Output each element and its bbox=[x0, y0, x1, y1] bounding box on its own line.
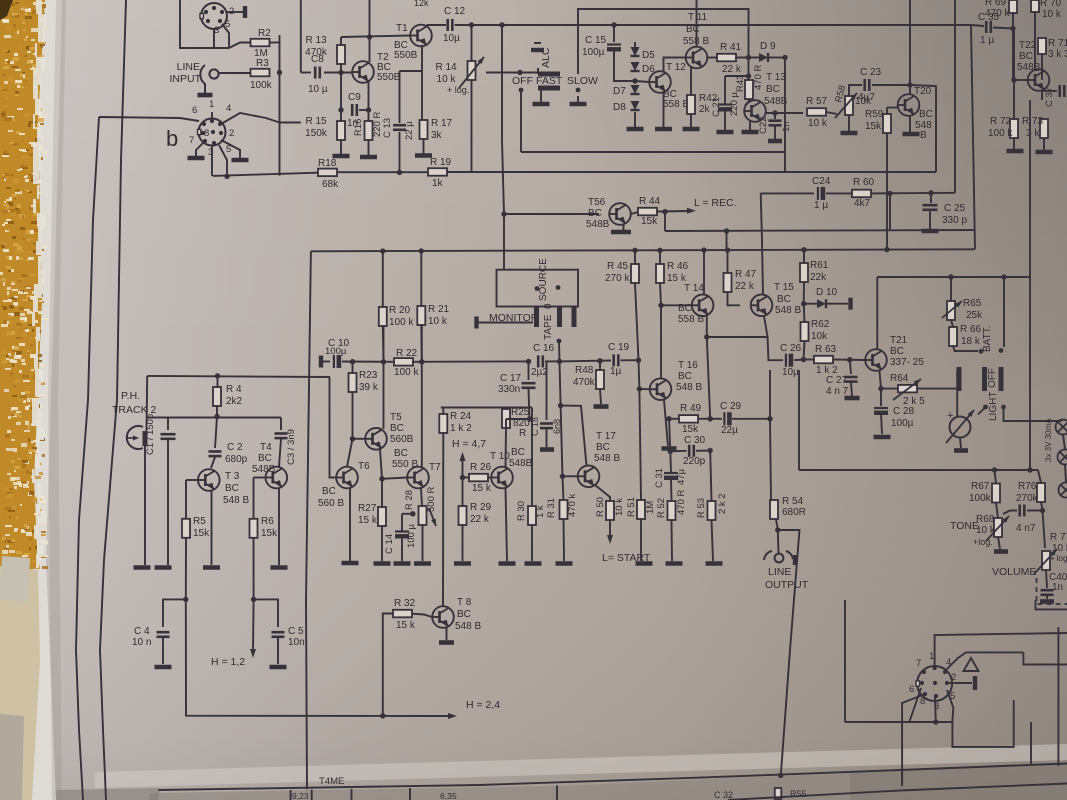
transistor T56 BC548B bbox=[609, 203, 631, 225]
wire T56 base line bbox=[504, 213, 599, 215]
capacitor C29 bbox=[724, 412, 729, 425]
svg-text:25k: 25k bbox=[966, 310, 983, 321]
wire T56 coll bbox=[631, 212, 638, 214]
wire R5 down bbox=[185, 538, 187, 599]
svg-text:R 66: R 66 bbox=[960, 324, 982, 335]
wire rail riser bbox=[971, 25, 975, 249]
wire R24 R25 line bbox=[441, 407, 506, 409]
potentiometer R68 bbox=[994, 518, 1002, 537]
wire C29 out bbox=[732, 418, 770, 420]
transistor T7 BC550B bbox=[407, 467, 429, 489]
wire T14 emitter up bbox=[703, 250, 705, 295]
svg-text:C 2: C 2 bbox=[227, 442, 243, 453]
svg-text:1 k: 1 k bbox=[535, 505, 546, 518]
node R69 C35 bbox=[1010, 26, 1015, 31]
svg-text:BC: BC bbox=[225, 483, 239, 494]
wire R24 to T8 bbox=[442, 433, 444, 606]
resistor R6 bbox=[250, 519, 258, 538]
transistor T15 BC548B bbox=[751, 295, 773, 317]
node R20 rail bbox=[380, 248, 385, 253]
svg-text:330n: 330n bbox=[498, 384, 520, 395]
resistor R31 bbox=[560, 500, 568, 519]
node T56 base bbox=[501, 211, 506, 216]
svg-text:BC: BC bbox=[890, 346, 904, 357]
svg-text:T7: T7 bbox=[429, 462, 441, 473]
wire diode string top bbox=[634, 42, 636, 47]
node C27 bbox=[847, 357, 852, 362]
wire R59 down to rail bbox=[886, 133, 888, 249]
node R14 top bbox=[469, 22, 474, 27]
svg-text:3 k 3: 3 k 3 bbox=[1048, 49, 1067, 60]
wire R71 bottom bbox=[1041, 54, 1043, 80]
wire emitter link bbox=[707, 336, 768, 338]
svg-text:R 14: R 14 bbox=[435, 62, 457, 73]
wire C14 top bbox=[401, 514, 403, 531]
ground R72 bbox=[1007, 149, 1024, 154]
wire T22 emitter bbox=[1041, 91, 1043, 101]
node D6 D7 bbox=[632, 78, 637, 83]
wire from T15 node down bbox=[769, 370, 771, 419]
svg-text:T 12: T 12 bbox=[666, 62, 686, 73]
wire T6 collector bbox=[347, 439, 353, 467]
svg-text:T6: T6 bbox=[358, 461, 370, 472]
svg-text:R 47: R 47 bbox=[735, 269, 757, 280]
node R20 R22 bbox=[381, 359, 386, 364]
arrow H12 bbox=[250, 649, 256, 658]
contact dot 2 bbox=[556, 285, 561, 290]
wire R61 bottom bbox=[803, 282, 805, 304]
svg-text:LIGHT: LIGHT bbox=[988, 392, 999, 421]
wire T6 emitter gnd bbox=[349, 489, 351, 562]
wire din feed left bbox=[844, 600, 846, 722]
wire R70 to T22 collector bbox=[1035, 12, 1039, 70]
resistor R71 bbox=[1038, 38, 1046, 54]
svg-text:C 21: C 21 bbox=[711, 97, 722, 117]
svg-text:R61: R61 bbox=[810, 260, 829, 271]
wire C3 top bbox=[280, 418, 282, 431]
wire C16 out bbox=[545, 360, 560, 362]
svg-text:BC: BC bbox=[588, 208, 602, 219]
wire R67 top bbox=[995, 470, 997, 484]
wire T8 base bbox=[412, 614, 432, 617]
wire R2 out bbox=[270, 42, 280, 44]
svg-text:C 35: C 35 bbox=[978, 12, 1000, 23]
node C22 top bbox=[772, 110, 777, 115]
svg-text:R 32: R 32 bbox=[394, 598, 416, 609]
wire bus mid bbox=[337, 171, 428, 173]
resistor R47 bbox=[724, 273, 732, 292]
svg-text:R68: R68 bbox=[976, 514, 995, 525]
wire to R2 bbox=[229, 43, 251, 49]
resistor R61 bbox=[800, 263, 808, 282]
wire pin5b down bbox=[219, 145, 227, 176]
wire to C41 bbox=[1003, 511, 1017, 515]
svg-text:550B: 550B bbox=[394, 50, 418, 61]
resistor R53 bbox=[708, 501, 716, 520]
wire C24 left bbox=[761, 192, 814, 194]
wire osc top line bbox=[168, 417, 281, 419]
svg-text:T 15: T 15 bbox=[774, 282, 794, 293]
svg-text:T 14: T 14 bbox=[684, 283, 704, 294]
svg-text:4 n7: 4 n7 bbox=[1016, 523, 1036, 534]
svg-text:P.H.: P.H. bbox=[121, 390, 140, 402]
wire left rail drop bbox=[306, 251, 311, 789]
svg-text:R16: R16 bbox=[353, 119, 364, 136]
node C13 bus bbox=[397, 170, 402, 175]
potentiometer R58 bbox=[845, 96, 853, 115]
svg-text:270k: 270k bbox=[1016, 493, 1039, 504]
wire R73 gnd bbox=[1043, 138, 1045, 150]
wire R72 gnd bbox=[1013, 138, 1015, 149]
svg-text:3k: 3k bbox=[431, 130, 443, 141]
wire to C35 bbox=[971, 25, 984, 26]
node R41 D9 bbox=[746, 55, 751, 60]
node T14 T15 bbox=[704, 334, 709, 339]
svg-text:R 30: R 30 bbox=[516, 501, 527, 521]
ground R15 bbox=[333, 154, 350, 159]
connector 5-pin DIN (mic) bbox=[201, 3, 227, 29]
wire R72 column bbox=[1013, 29, 1015, 120]
transistor T4 BC548B bbox=[266, 467, 288, 489]
svg-text:470k: 470k bbox=[573, 377, 596, 388]
svg-text:270 k: 270 k bbox=[605, 273, 630, 284]
svg-text:D5: D5 bbox=[642, 50, 655, 61]
svg-text:10 k: 10 k bbox=[976, 525, 996, 536]
wire C10 out bbox=[342, 361, 394, 363]
ground T13 bbox=[742, 130, 759, 135]
wire TAPE down bbox=[558, 341, 561, 361]
svg-text:BC: BC bbox=[394, 448, 408, 459]
wire bus left bbox=[213, 173, 318, 176]
svg-text:D 9: D 9 bbox=[760, 41, 776, 52]
wire R63 left bbox=[804, 359, 815, 361]
switch OFF power contact 2 bbox=[982, 367, 987, 391]
svg-text:1n: 1n bbox=[1052, 582, 1063, 593]
svg-text:10 k: 10 k bbox=[808, 118, 828, 129]
resistor R70 bbox=[1031, 0, 1039, 12]
resistor R67 bbox=[992, 484, 1000, 503]
wire C26 out bbox=[794, 359, 804, 362]
svg-text:C 18: C 18 bbox=[530, 417, 540, 436]
wire down to R49 bbox=[707, 337, 710, 419]
wire R45 top bbox=[634, 250, 636, 264]
node C30 right bbox=[708, 448, 713, 453]
svg-text:550B: 550B bbox=[377, 72, 401, 83]
wire R25 tail bbox=[505, 419, 507, 428]
resistor R30 bbox=[528, 506, 536, 525]
svg-text:22 µ: 22 µ bbox=[404, 121, 415, 140]
wire R26 left bbox=[463, 477, 470, 479]
wire R23 to T5 base bbox=[352, 392, 354, 439]
wire R44 out bbox=[657, 210, 689, 213]
node R49 left bbox=[666, 416, 671, 421]
wire C40 gnd bbox=[1046, 596, 1048, 599]
resistor R55 bbox=[775, 788, 782, 799]
wire T15 emitter bbox=[764, 316, 768, 337]
svg-text:15k: 15k bbox=[682, 424, 699, 435]
resistor R73 bbox=[1040, 119, 1048, 138]
svg-text:10µ: 10µ bbox=[782, 367, 799, 378]
svg-text:15 k: 15 k bbox=[358, 515, 378, 526]
terminal bar pin2 bbox=[243, 6, 247, 18]
lamp LA2 bbox=[1058, 450, 1067, 465]
svg-text:b: b bbox=[166, 126, 178, 151]
wire C14 gnd bbox=[401, 537, 403, 561]
connector line output jack bbox=[775, 554, 784, 563]
wire R54 top bbox=[770, 419, 771, 500]
wire R48 gnd bbox=[600, 389, 601, 404]
svg-text:R76: R76 bbox=[1018, 481, 1037, 492]
wire C28 top bbox=[880, 389, 882, 406]
terminal MONITOR bbox=[474, 317, 478, 329]
switch monitor contact 1 bbox=[534, 307, 539, 327]
svg-text:10 k: 10 k bbox=[614, 498, 625, 516]
svg-text:H = 4,7: H = 4,7 bbox=[452, 438, 486, 450]
svg-text:C9: C9 bbox=[348, 92, 361, 103]
triangle symbol bbox=[964, 658, 979, 671]
contact LIGHT 2 bbox=[1001, 405, 1006, 410]
svg-text:100 k: 100 k bbox=[389, 317, 414, 328]
svg-text:4k7: 4k7 bbox=[854, 198, 871, 209]
arrow L START bbox=[607, 535, 613, 544]
wire top supply line bbox=[502, 24, 971, 26]
svg-text:3 k: 3 k bbox=[1026, 128, 1040, 139]
svg-text:100 µ: 100 µ bbox=[406, 524, 417, 548]
resistor R51 bbox=[637, 500, 645, 519]
wire T16 emitter gnd bbox=[664, 400, 668, 446]
svg-text:R 4: R 4 bbox=[226, 384, 242, 395]
tick 5 bbox=[556, 785, 558, 800]
wire R69 top bbox=[1012, 0, 1014, 5]
wire rpin5 down bbox=[947, 690, 953, 722]
node R76 bottom bbox=[1040, 508, 1045, 513]
wire R31 gnd bbox=[563, 519, 566, 561]
svg-text:R64: R64 bbox=[890, 373, 909, 384]
svg-text:R 63: R 63 bbox=[815, 344, 837, 355]
resistor R27 bbox=[378, 507, 386, 526]
svg-text:BC: BC bbox=[511, 447, 525, 458]
transistor T2 BC550B bbox=[352, 61, 374, 83]
wire R25 R30 link bbox=[506, 407, 532, 409]
ground T12 bbox=[655, 127, 672, 132]
wire T21 emitter bbox=[880, 371, 882, 389]
contact BATT 2 bbox=[999, 348, 1004, 353]
svg-text:BC: BC bbox=[390, 423, 404, 434]
wire rpin3 down bbox=[934, 696, 937, 722]
capacitor C4 bbox=[157, 632, 170, 637]
ground C5 bbox=[270, 665, 287, 670]
svg-text:R5: R5 bbox=[193, 516, 206, 527]
pot arrow R65 bbox=[942, 301, 962, 318]
wire T13 emitter gnd bbox=[749, 122, 751, 131]
svg-text:R27: R27 bbox=[358, 503, 377, 514]
node line out bbox=[775, 527, 780, 532]
wire R4 top line bbox=[147, 376, 330, 377]
wire C31 top bbox=[669, 451, 672, 472]
svg-text:FAST: FAST bbox=[536, 75, 563, 87]
resistor R44 bbox=[638, 208, 657, 216]
svg-text:C 29: C 29 bbox=[720, 401, 742, 412]
node D9 rail bbox=[782, 55, 787, 60]
resistor R59 bbox=[883, 114, 891, 133]
wire T1 emitter down bbox=[421, 45, 423, 120]
wire C28 gnd bbox=[881, 414, 882, 435]
node R60 riser bbox=[887, 191, 892, 196]
wire R62 bottom bbox=[804, 341, 805, 360]
wire main rail bbox=[311, 249, 975, 251]
wire to T16 base bbox=[638, 360, 641, 389]
node R4 C2 bbox=[214, 414, 219, 419]
wire T22 base bbox=[1014, 79, 1028, 81]
wire D8 gnd bbox=[634, 112, 636, 127]
svg-text:10 k: 10 k bbox=[428, 316, 448, 327]
wire C18 gnd bbox=[546, 429, 548, 447]
svg-text:C 26: C 26 bbox=[780, 343, 802, 354]
wire R24 top bbox=[442, 408, 444, 415]
switch monitor contact 2 bbox=[557, 307, 562, 327]
svg-text:T 8: T 8 bbox=[457, 597, 472, 608]
wire to C8 bbox=[301, 72, 311, 74]
wire R64 out bbox=[917, 388, 957, 390]
wire C12 out bbox=[455, 24, 502, 26]
wire R4 bottom bbox=[216, 406, 218, 417]
wire R23 top bbox=[352, 362, 354, 373]
node R4 top bbox=[215, 373, 220, 378]
svg-text:15k: 15k bbox=[193, 528, 210, 539]
contact SLOW bbox=[576, 88, 581, 93]
svg-text:T5: T5 bbox=[390, 412, 402, 423]
capacitor C40 bbox=[1041, 590, 1054, 595]
svg-text:R 69: R 69 bbox=[985, 0, 1007, 8]
svg-text:R 71: R 71 bbox=[1048, 38, 1067, 49]
svg-text:C 25: C 25 bbox=[944, 203, 966, 214]
svg-text:C 31: C 31 bbox=[654, 468, 665, 488]
wire C18 top bbox=[546, 361, 548, 420]
svg-text:100 k: 100 k bbox=[988, 128, 1013, 139]
potentiometer R14 bbox=[468, 61, 476, 80]
svg-text:220p: 220p bbox=[683, 456, 706, 467]
wire T4 base bbox=[254, 477, 266, 479]
wire C30 left bbox=[670, 450, 686, 453]
wire R13 top bbox=[340, 37, 342, 45]
wire rpin6 diagonal bbox=[909, 688, 921, 723]
ground C21 bbox=[717, 130, 734, 135]
ground R31 bbox=[556, 561, 573, 566]
resistor R26 bbox=[469, 474, 488, 482]
wire C21 top link bbox=[725, 75, 749, 77]
resistor R4 bbox=[213, 387, 221, 406]
node R45 rail bbox=[632, 248, 637, 253]
wire R28 gnd bbox=[422, 525, 424, 561]
wire R4 stub bbox=[217, 376, 219, 387]
svg-text:C 27: C 27 bbox=[826, 375, 848, 386]
node pin5 bus bbox=[224, 174, 229, 179]
svg-text:4 n 7: 4 n 7 bbox=[826, 386, 849, 397]
node R47 rail bbox=[725, 247, 730, 252]
potentiometer R28 bbox=[419, 506, 427, 525]
wire R46 bottom bbox=[660, 283, 661, 305]
wire T17 emitter bbox=[595, 485, 610, 501]
node R26 R29 bbox=[460, 475, 465, 480]
wire R21 top bbox=[420, 251, 422, 306]
svg-text:C 19: C 19 bbox=[608, 342, 630, 353]
wire right bus 1 bbox=[954, 0, 956, 193]
svg-text:10 n: 10 n bbox=[132, 637, 151, 648]
svg-text:C 23: C 23 bbox=[860, 67, 882, 78]
wire ALC box top bbox=[578, 9, 749, 74]
node C5 bbox=[251, 597, 256, 602]
svg-text:22 k: 22 k bbox=[735, 281, 755, 292]
svg-text:D7: D7 bbox=[613, 86, 626, 97]
meter M1 bbox=[950, 417, 971, 438]
resistor R21 bbox=[417, 306, 425, 325]
arrow L REC bbox=[687, 208, 696, 214]
transistor T13 BC548B bbox=[744, 100, 766, 122]
wire SLOW gnd stub bbox=[577, 96, 579, 102]
wire R66 to BATT bbox=[953, 346, 978, 351]
wire T15 collector to C24 bbox=[761, 193, 763, 294]
ground pin2b bbox=[232, 158, 249, 163]
wire C1 gnd bbox=[167, 440, 169, 565]
switch box source-tape bbox=[497, 270, 579, 307]
transistor T12 BC558B bbox=[649, 71, 671, 93]
wire T10 collector bbox=[505, 428, 508, 467]
wire R59 top bbox=[886, 108, 888, 115]
connector line input jack bbox=[209, 69, 218, 78]
svg-text:6,35: 6,35 bbox=[440, 791, 457, 800]
svg-text:R 22: R 22 bbox=[396, 348, 418, 359]
resistor R54 bbox=[770, 500, 778, 519]
resistor R13 bbox=[337, 45, 345, 64]
wire T2 emitter down bbox=[368, 82, 370, 121]
svg-text:T4: T4 bbox=[260, 442, 272, 453]
resistor R49 bbox=[679, 415, 698, 423]
svg-text:T4ME: T4ME bbox=[319, 776, 344, 787]
svg-text:1n: 1n bbox=[781, 121, 792, 132]
svg-text:INPUT: INPUT bbox=[170, 73, 202, 85]
svg-text:TAPE: TAPE bbox=[543, 314, 554, 340]
wire pin3b down bbox=[211, 145, 213, 176]
svg-text:R 24: R 24 bbox=[450, 411, 472, 422]
svg-text:BC: BC bbox=[322, 486, 336, 497]
svg-text:L = REC.: L = REC. bbox=[694, 197, 737, 209]
ground T16 bbox=[662, 446, 677, 451]
wire R50 arrow bbox=[609, 520, 611, 537]
svg-text:C 12: C 12 bbox=[444, 6, 466, 17]
resistor R66 bbox=[949, 327, 957, 346]
wire pin2 to terminal bbox=[227, 11, 243, 13]
wire R48 top bbox=[599, 361, 601, 370]
svg-text:R 46: R 46 bbox=[667, 261, 689, 272]
wire R60 out bbox=[871, 192, 955, 195]
wire R30 top bbox=[531, 408, 533, 507]
wire C13 top link bbox=[400, 70, 423, 72]
wire T12 emitter gnd bbox=[663, 93, 665, 128]
svg-text:R 51: R 51 bbox=[626, 497, 637, 517]
node wiper bbox=[517, 70, 522, 75]
node TAPE out bbox=[557, 339, 562, 344]
resistor R62 bbox=[801, 322, 809, 341]
svg-text:R 49: R 49 bbox=[680, 403, 702, 414]
wire C23 to T20 bbox=[872, 84, 910, 86]
wire meter gnd bbox=[960, 438, 961, 449]
wire DIN b pin6 feed bbox=[99, 117, 199, 121]
svg-text:560 B: 560 B bbox=[318, 498, 344, 509]
resistor R20 bbox=[379, 307, 387, 326]
svg-text:T 10: T 10 bbox=[490, 451, 510, 462]
wire T22 bus lower bbox=[1029, 277, 1031, 470]
svg-text:2 k 2: 2 k 2 bbox=[717, 493, 728, 514]
